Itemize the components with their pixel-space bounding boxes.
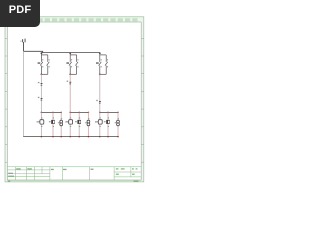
device E5 drop wire: [78, 112, 80, 136]
breaker F1 tag label: [38, 62, 41, 63]
node: bus junction 3: [99, 52, 101, 54]
nodes on bottom rail: [41, 136, 119, 138]
wire: feed drop from L1: [23, 42, 25, 51]
wire: branch 2 drop: [69, 74, 71, 112]
top zone band column number cells: [8, 18, 137, 21]
device E9 (double lamp): [115, 118, 120, 126]
breaker F1 pin numbers: [42, 59, 49, 67]
breaker F3 (2-pole): [99, 53, 108, 75]
breaker F2 (2-pole): [69, 53, 78, 75]
wire: branch 1 drop: [40, 74, 42, 112]
breaker F3 tag label: [96, 62, 99, 63]
terminal X1 on branch 1: [38, 82, 43, 86]
wire: branch 3 drop: [99, 74, 101, 112]
device E1 drop wire: [40, 112, 42, 136]
wire: group 1 top rail: [41, 111, 61, 113]
device E6 (double lamp): [85, 118, 90, 126]
wire: neutral return (light): [23, 52, 25, 137]
wire: bottom rail: [23, 136, 118, 138]
node: bus junction 1: [41, 52, 43, 54]
breaker F1 (2-pole): [40, 53, 49, 75]
device E4 drop wire: [69, 112, 71, 136]
breaker F2 tag label: [66, 62, 69, 63]
device E5 (switch, filled): [75, 117, 81, 127]
wire: group 3 top rail: [100, 111, 118, 113]
drawing frame outer border: [5, 17, 144, 182]
breaker F3 pin numbers: [101, 59, 109, 67]
device E7 drop wire: [99, 112, 101, 136]
device E6 drop wire: [87, 112, 89, 136]
terminal X3 on branch 2: [67, 81, 72, 85]
device E3 (double lamp): [58, 118, 63, 126]
nodes on top rails: [41, 112, 119, 114]
left zone band row ticks: [5, 38, 7, 162]
terminal X4 on branch 3: [96, 100, 101, 104]
device E8 (switch, filled): [104, 117, 110, 127]
device E3 drop wire: [60, 112, 62, 136]
wire: group 2 top rail: [70, 111, 88, 113]
device E2 drop wire: [52, 112, 54, 136]
right zone band row ticks: [141, 38, 144, 162]
node: bus junction 2: [69, 52, 71, 54]
wire: main bus: [41, 52, 99, 54]
drawing frame band fill: [5, 17, 144, 182]
node: below F3: [99, 74, 101, 76]
device E9 drop wire: [117, 112, 119, 136]
device E4 (outlet): [65, 117, 72, 127]
PDF badge: [0, 0, 40, 27]
wire: feed horizontal to bus: [24, 51, 43, 52]
device E8 drop wire: [107, 112, 109, 136]
terminal X2 on branch 1: [38, 97, 43, 101]
feed label L1: [20, 39, 25, 43]
node: below F1: [41, 74, 43, 76]
device E7 (outlet): [95, 117, 102, 127]
drawing frame inner border: [7, 22, 141, 180]
title block grid lines: [7, 167, 141, 180]
device E1 (outlet): [37, 117, 44, 127]
node: below F2: [69, 74, 71, 76]
breaker F2 pin numbers: [71, 59, 79, 67]
title block label text marks: [8, 168, 139, 182]
device E2 (switch, filled): [49, 117, 55, 127]
